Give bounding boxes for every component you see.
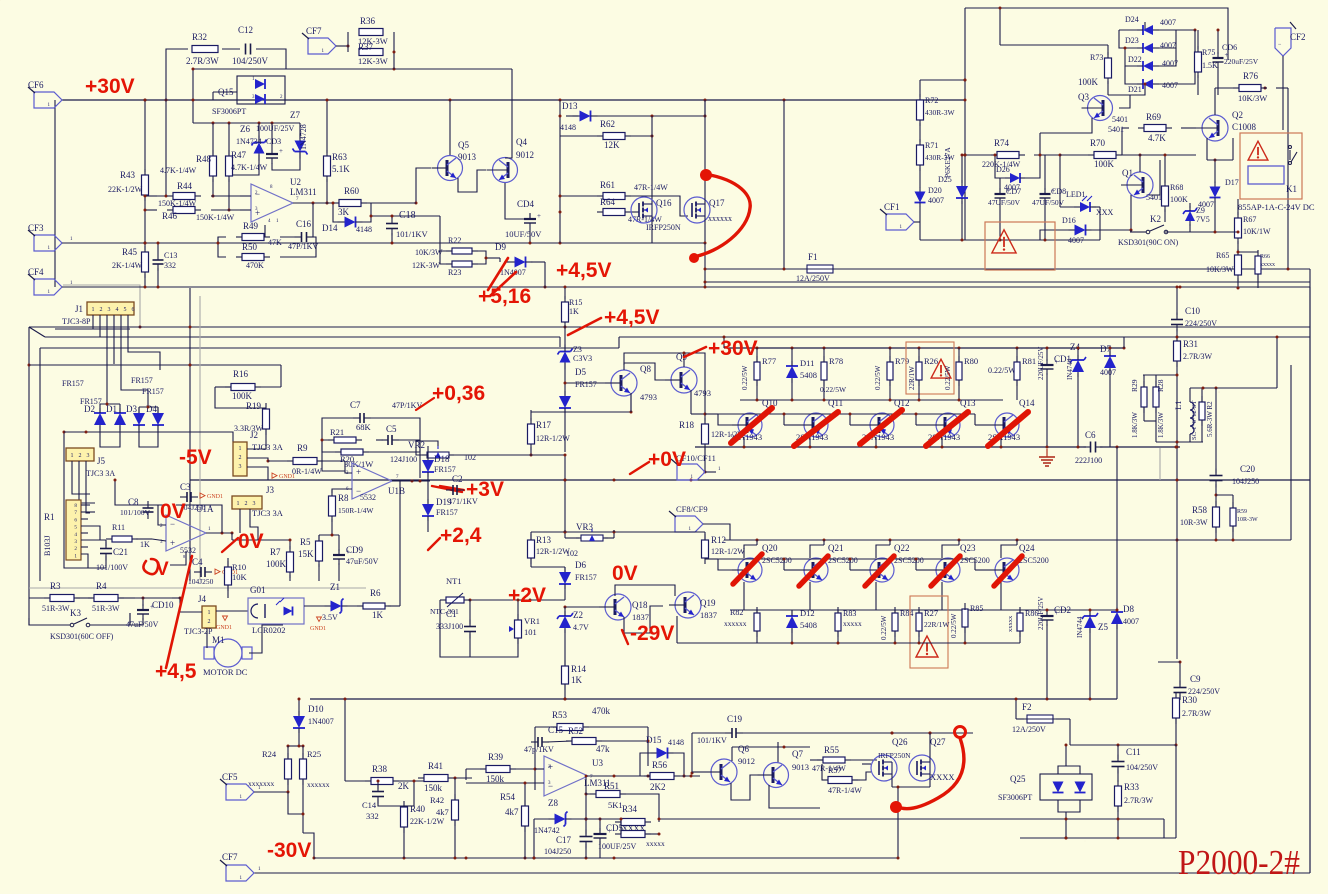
svg-text:R30: R30 bbox=[1182, 695, 1198, 705]
svg-text:5408: 5408 bbox=[800, 620, 817, 630]
transistor Q13 bbox=[928, 398, 976, 442]
svg-text:4007: 4007 bbox=[1068, 236, 1084, 245]
capacitor C11 bbox=[1112, 745, 1159, 782]
svg-text:104J250: 104J250 bbox=[1232, 477, 1259, 486]
svg-text:R69: R69 bbox=[1146, 112, 1162, 122]
red +0,36 bbox=[416, 382, 485, 410]
resistor R11 bbox=[106, 523, 152, 549]
svg-text:C4: C4 bbox=[192, 557, 203, 567]
svg-text:R57: R57 bbox=[828, 766, 841, 775]
red D18 D19 marks bbox=[440, 486, 464, 490]
svg-text:R62: R62 bbox=[600, 119, 615, 129]
wire NPN col rail bbox=[744, 540, 1017, 558]
svg-text:R1: R1 bbox=[44, 512, 55, 522]
resistor R38 bbox=[345, 764, 424, 791]
svg-text:4007: 4007 bbox=[928, 196, 944, 205]
svg-text:F1: F1 bbox=[808, 252, 818, 262]
svg-text:+30V: +30V bbox=[85, 75, 135, 98]
resistor R64 bbox=[597, 197, 662, 224]
svg-text:R72: R72 bbox=[925, 96, 938, 105]
svg-text:R67: R67 bbox=[1243, 215, 1256, 224]
red 0V d bbox=[612, 562, 638, 585]
connector J1 bbox=[62, 302, 135, 326]
wire K2 right bbox=[1166, 222, 1240, 234]
svg-text:D13: D13 bbox=[562, 101, 578, 111]
resistor R7 bbox=[258, 540, 294, 581]
svg-text:Q14: Q14 bbox=[1019, 398, 1035, 408]
svg-text:FR157: FR157 bbox=[80, 397, 102, 406]
wire mid rail y480 bbox=[189, 288, 1311, 581]
red slashes Q20-Q24 bbox=[733, 554, 1022, 586]
svg-text:xxxxx: xxxxx bbox=[646, 839, 665, 848]
svg-text:+2V: +2V bbox=[508, 584, 546, 607]
svg-text:D1: D1 bbox=[106, 404, 117, 414]
wire x565 mid link bbox=[564, 454, 567, 534]
svg-text:1.8K/3W: 1.8K/3W bbox=[1131, 412, 1139, 438]
svg-text:Q17: Q17 bbox=[709, 198, 725, 208]
capacitor C20 bbox=[1210, 388, 1260, 495]
red +4,5V b bbox=[568, 306, 659, 335]
svg-text:8: 8 bbox=[74, 503, 77, 509]
capacitor C7 bbox=[350, 400, 422, 423]
svg-text:R34: R34 bbox=[622, 804, 638, 814]
wire R17 net bbox=[454, 393, 633, 457]
svg-text:R73: R73 bbox=[1090, 53, 1103, 62]
resistor R78 bbox=[820, 348, 847, 400]
svg-text:L1: L1 bbox=[1173, 401, 1183, 410]
resistor R51 bbox=[590, 781, 626, 810]
svg-text:2.7R/3W: 2.7R/3W bbox=[1183, 352, 1213, 361]
svg-text:R84: R84 bbox=[900, 609, 913, 618]
svg-text:+2,4: +2,4 bbox=[440, 524, 482, 547]
svg-text:C19: C19 bbox=[727, 714, 743, 724]
svg-text:R41: R41 bbox=[428, 761, 443, 771]
wire Q26Q27 net bbox=[860, 764, 871, 780]
capacitor C8 bbox=[120, 497, 154, 519]
svg-text:D18: D18 bbox=[434, 454, 450, 464]
resistor R70 bbox=[1088, 138, 1122, 169]
svg-text:V: V bbox=[156, 559, 169, 580]
resistor R21 bbox=[328, 422, 372, 443]
svg-text:TJC3 3A: TJC3 3A bbox=[252, 508, 284, 518]
diode D4 bbox=[146, 404, 164, 430]
switch K2 bbox=[1118, 214, 1179, 247]
svg-text:10R-3W: 10R-3W bbox=[1237, 517, 1258, 523]
svg-text:U3: U3 bbox=[592, 758, 603, 768]
svg-text:12R-1/2W: 12R-1/2W bbox=[711, 547, 745, 556]
svg-text:5: 5 bbox=[124, 307, 127, 313]
svg-text:C18: C18 bbox=[399, 210, 416, 221]
diode D3 bbox=[126, 404, 145, 430]
svg-text:R68: R68 bbox=[1170, 183, 1183, 192]
transistor Q12 bbox=[862, 398, 910, 442]
svg-text:NT1: NT1 bbox=[446, 576, 462, 586]
capacitor C16 bbox=[288, 219, 318, 251]
red +30V mid bbox=[684, 337, 758, 360]
wire Z6 net bbox=[193, 122, 300, 176]
wire NPN bases bbox=[705, 558, 989, 571]
svg-text:CD10: CD10 bbox=[152, 600, 174, 610]
svg-text:51R-3W: 51R-3W bbox=[92, 604, 120, 613]
svg-text:12A/250V: 12A/250V bbox=[1012, 725, 1046, 734]
wire U3 below bbox=[585, 793, 588, 821]
svg-text:6: 6 bbox=[74, 517, 77, 523]
wire PNP row mid rail bbox=[740, 399, 1003, 402]
svg-text:xxxxxx: xxxxxx bbox=[724, 619, 747, 628]
diode D21 bbox=[1128, 79, 1178, 94]
wire bus y540 frag bbox=[232, 539, 292, 542]
resistor R31 bbox=[1174, 335, 1213, 367]
svg-text:P2000-2#: P2000-2# bbox=[1178, 843, 1300, 882]
resistor R52 bbox=[547, 726, 650, 766]
svg-text:R46: R46 bbox=[162, 211, 178, 221]
svg-text:4.7K-1/4W: 4.7K-1/4W bbox=[231, 163, 268, 172]
resistor R63 bbox=[324, 99, 351, 205]
svg-text:R51: R51 bbox=[604, 781, 619, 791]
zener Z6 bbox=[236, 124, 267, 161]
label GND1 a bbox=[200, 493, 223, 500]
svg-text:R80: R80 bbox=[964, 356, 978, 366]
svg-text:2SC5200: 2SC5200 bbox=[828, 556, 858, 565]
optocoupler G01 bbox=[248, 585, 304, 635]
svg-text:D10: D10 bbox=[308, 704, 324, 714]
thermistor NT1 bbox=[430, 576, 470, 616]
svg-text:R55: R55 bbox=[824, 745, 840, 755]
svg-text:R76: R76 bbox=[1243, 71, 1259, 81]
resistor R68 bbox=[1162, 154, 1189, 223]
svg-text:Q24: Q24 bbox=[1019, 543, 1035, 553]
resistor R65 bbox=[1206, 249, 1242, 290]
svg-text:CD8: CD8 bbox=[1051, 187, 1066, 196]
resistor R66 bbox=[1237, 250, 1276, 288]
svg-text:101: 101 bbox=[524, 627, 537, 637]
resistor R28 bbox=[1153, 375, 1165, 438]
wire R24 bottom bbox=[288, 792, 305, 816]
svg-text:100K: 100K bbox=[266, 559, 287, 569]
wire y432 line bbox=[64, 431, 233, 443]
svg-text:R10: R10 bbox=[232, 562, 246, 572]
wire U1A out to J3 bbox=[231, 533, 233, 540]
svg-text:471/1KV: 471/1KV bbox=[448, 497, 478, 506]
wire Q6Q7 nets bbox=[692, 746, 810, 801]
svg-text:R70: R70 bbox=[1090, 138, 1106, 148]
svg-text:5401: 5401 bbox=[1108, 125, 1124, 134]
connector CF1 bbox=[880, 202, 920, 230]
svg-text:R28: R28 bbox=[1156, 379, 1165, 392]
svg-text:R63: R63 bbox=[332, 152, 348, 162]
resistor R56 bbox=[644, 760, 680, 792]
red arc Q27 bbox=[890, 727, 966, 814]
svg-text:C5: C5 bbox=[386, 424, 397, 434]
wire PNP emitters collectors bbox=[744, 437, 1001, 447]
svg-text:2SC5200: 2SC5200 bbox=[894, 556, 924, 565]
transistor Q3 bbox=[1078, 92, 1128, 124]
diode D13 bbox=[560, 101, 598, 132]
red arc Q17 bbox=[689, 169, 750, 263]
transistor Q22 bbox=[864, 543, 924, 582]
diode D19 bbox=[422, 480, 458, 532]
connector J5 bbox=[66, 448, 115, 478]
capacitor C6 bbox=[1075, 430, 1103, 465]
svg-text:GND1: GND1 bbox=[207, 494, 223, 500]
resistor R15 bbox=[562, 296, 583, 328]
red 0V c bbox=[143, 559, 169, 580]
svg-text:1N4734: 1N4734 bbox=[236, 137, 262, 146]
svg-text:9013: 9013 bbox=[792, 762, 809, 772]
wire U3 nets bbox=[466, 769, 668, 783]
diode D5 bbox=[559, 367, 597, 452]
label 30K1W bbox=[344, 459, 373, 469]
svg-text:7: 7 bbox=[74, 510, 77, 516]
svg-text:Q25: Q25 bbox=[1010, 774, 1026, 784]
label GND1 d bbox=[310, 617, 326, 632]
wire +30V rail bbox=[62, 99, 965, 102]
wire G01 nets bbox=[304, 605, 330, 607]
svg-text:R39: R39 bbox=[488, 752, 504, 762]
wire R16 net bbox=[189, 364, 192, 367]
transistor Q19 bbox=[669, 592, 717, 620]
resistor R44 bbox=[158, 181, 201, 208]
svg-text:1: 1 bbox=[237, 501, 240, 507]
svg-text:3: 3 bbox=[108, 307, 111, 313]
svg-text:4007: 4007 bbox=[1160, 18, 1176, 27]
svg-text:D26: D26 bbox=[996, 165, 1010, 174]
svg-text:+4,5: +4,5 bbox=[155, 660, 197, 683]
connector CF2 bbox=[1275, 22, 1306, 130]
svg-text:1837: 1837 bbox=[700, 610, 717, 620]
svg-text:R11: R11 bbox=[112, 523, 125, 532]
svg-text:1.8K/3W: 1.8K/3W bbox=[1157, 412, 1165, 438]
op-amp U2 bbox=[251, 177, 317, 224]
svg-text:4793: 4793 bbox=[640, 392, 657, 402]
svg-text:5: 5 bbox=[74, 525, 77, 531]
svg-text:R3: R3 bbox=[50, 581, 61, 591]
svg-text:220UF/25V: 220UF/25V bbox=[1037, 347, 1045, 380]
resistor R48 bbox=[160, 150, 217, 182]
capacitor C21 bbox=[96, 540, 128, 572]
svg-text:XXXX: XXXX bbox=[930, 772, 955, 782]
wire PNP bases bbox=[705, 413, 989, 426]
svg-text:F2: F2 bbox=[1022, 702, 1032, 712]
svg-text:R65: R65 bbox=[1216, 251, 1229, 260]
svg-text:430R-3W: 430R-3W bbox=[925, 108, 956, 117]
capacitor CD2 bbox=[1037, 597, 1071, 699]
resistor R67 bbox=[1235, 199, 1272, 252]
svg-text:150R-1/4W: 150R-1/4W bbox=[338, 506, 374, 515]
svg-text:2: 2 bbox=[74, 546, 77, 552]
resistor R58 bbox=[1180, 494, 1220, 541]
wire J4 pins bbox=[172, 597, 248, 632]
wire R45C13 bbox=[144, 242, 160, 289]
svg-text:470k: 470k bbox=[592, 706, 611, 716]
svg-text:12A/250V: 12A/250V bbox=[796, 274, 830, 283]
svg-text:D4: D4 bbox=[146, 404, 157, 414]
label GND1 c bbox=[272, 473, 295, 480]
wire Q3 top net bbox=[999, 7, 1146, 46]
svg-text:D14: D14 bbox=[322, 223, 338, 233]
svg-text:10K/3W: 10K/3W bbox=[1206, 265, 1234, 274]
svg-text:0.22/5W: 0.22/5W bbox=[950, 613, 958, 638]
wire Q4Q5 nets bbox=[371, 69, 524, 219]
wire gray right bbox=[1159, 448, 1161, 480]
resistor R49 bbox=[236, 221, 282, 247]
wire D10 net bbox=[287, 745, 305, 748]
svg-text:+: + bbox=[356, 467, 361, 477]
svg-text:470K: 470K bbox=[246, 261, 264, 270]
svg-text:3: 3 bbox=[253, 501, 256, 507]
svg-text:TJC3-2P: TJC3-2P bbox=[184, 627, 213, 636]
red +4,5 bottom bbox=[155, 556, 197, 683]
transistor Q17 MOSFET bbox=[684, 197, 732, 223]
svg-text:10K: 10K bbox=[232, 572, 248, 582]
svg-text:G01: G01 bbox=[250, 585, 266, 595]
wire bottom bus y858 bbox=[314, 857, 898, 860]
transistor Q6 bbox=[705, 744, 755, 785]
wire VR2R18 bbox=[691, 390, 707, 416]
svg-text:GND1: GND1 bbox=[216, 625, 232, 631]
svg-text:VR3: VR3 bbox=[576, 522, 594, 532]
connector J4 bbox=[184, 594, 216, 636]
transistor Q27 MOSFET bbox=[909, 737, 955, 782]
transistor Q8 bbox=[605, 364, 657, 402]
svg-text:4007: 4007 bbox=[1100, 368, 1116, 377]
resistor R2 bbox=[1199, 388, 1214, 442]
resistor R46 bbox=[162, 207, 235, 223]
resistor R69 bbox=[1138, 112, 1172, 143]
svg-text:R61: R61 bbox=[600, 180, 615, 190]
resistor R60 bbox=[333, 186, 367, 217]
wire J5 pins bbox=[72, 461, 95, 513]
svg-text:1N4007: 1N4007 bbox=[308, 717, 334, 726]
capacitor CD3 bbox=[256, 124, 294, 164]
svg-text:R43: R43 bbox=[120, 170, 136, 180]
resistor R29 bbox=[1130, 379, 1147, 438]
diode D9 bbox=[495, 242, 533, 277]
svg-text:R66: R66 bbox=[1260, 254, 1270, 260]
svg-text:+30V: +30V bbox=[708, 337, 758, 360]
wire Q26 top bbox=[891, 732, 932, 735]
svg-text:FR157: FR157 bbox=[575, 380, 597, 389]
wire right edge bbox=[1309, 287, 1311, 873]
diode D2 bbox=[84, 404, 106, 430]
resistor R42 bbox=[430, 778, 459, 860]
svg-text:Z5: Z5 bbox=[1098, 622, 1108, 632]
svg-text:0R-1/4W: 0R-1/4W bbox=[292, 467, 322, 476]
svg-text:C20: C20 bbox=[1240, 464, 1256, 474]
svg-text:R79: R79 bbox=[895, 356, 909, 366]
svg-text:R19: R19 bbox=[246, 401, 262, 411]
svg-text:Q16: Q16 bbox=[656, 198, 672, 208]
svg-text:2.7R/3W: 2.7R/3W bbox=[1124, 796, 1154, 805]
pot VR3 bbox=[566, 522, 608, 558]
transistor Q11 bbox=[796, 398, 843, 442]
red +30V top bbox=[85, 75, 135, 98]
svg-text:100K: 100K bbox=[1094, 159, 1115, 169]
wire left col x55 bbox=[54, 100, 56, 287]
svg-text:R58: R58 bbox=[1192, 505, 1208, 515]
svg-text:2.7R/3W: 2.7R/3W bbox=[1182, 709, 1212, 718]
wire R55 right bbox=[0, 0, 1, 1]
svg-text:3.3R/3W: 3.3R/3W bbox=[234, 424, 264, 433]
red -29V bbox=[622, 622, 674, 645]
svg-text:+0V: +0V bbox=[648, 448, 686, 471]
svg-text:Q3: Q3 bbox=[1078, 92, 1089, 102]
svg-text:C12: C12 bbox=[238, 25, 253, 35]
svg-text:224/250V: 224/250V bbox=[1185, 319, 1217, 328]
svg-text:GND1: GND1 bbox=[310, 626, 326, 632]
wire output row top rail bbox=[724, 347, 1126, 350]
svg-text:C1008: C1008 bbox=[1232, 122, 1257, 132]
svg-text:MOTOR DC: MOTOR DC bbox=[203, 667, 248, 677]
svg-text:D11: D11 bbox=[800, 358, 814, 368]
svg-text:SC-1*6*12-ST: SC-1*6*12-ST bbox=[1191, 401, 1198, 440]
wire D2x net bbox=[1108, 29, 1197, 96]
svg-text:CF3: CF3 bbox=[28, 223, 44, 233]
svg-text:U2: U2 bbox=[290, 177, 301, 187]
capacitor CD4 bbox=[505, 199, 542, 239]
svg-text:2: 2 bbox=[100, 307, 103, 313]
svg-text:855AP-1A-C-24V DC: 855AP-1A-C-24V DC bbox=[1238, 202, 1315, 212]
resistor R36 bbox=[358, 16, 388, 46]
svg-text:R22: R22 bbox=[448, 236, 461, 245]
wire R22 net bbox=[440, 251, 500, 264]
wire CF7-R36 bbox=[336, 32, 396, 69]
wire R44 net bbox=[144, 195, 241, 212]
wire Q16Q17 net bbox=[652, 100, 707, 289]
resistor R40 bbox=[401, 801, 445, 858]
wire R29 net bbox=[1143, 365, 1203, 659]
svg-text:+: + bbox=[279, 147, 283, 155]
resistor R72 bbox=[917, 79, 967, 127]
svg-text:R48: R48 bbox=[196, 154, 212, 164]
svg-text:FR157: FR157 bbox=[436, 508, 458, 517]
svg-text:TJC3 3A: TJC3 3A bbox=[252, 442, 284, 452]
capacitor C10 bbox=[1171, 286, 1217, 337]
svg-text:CF2: CF2 bbox=[1290, 32, 1306, 42]
resistor R5 bbox=[298, 535, 323, 581]
op-amp U1B bbox=[346, 463, 405, 502]
svg-text:J1: J1 bbox=[75, 304, 83, 314]
svg-text:D9: D9 bbox=[495, 242, 506, 252]
wire R49 net bbox=[217, 237, 317, 257]
svg-text:12K-3W: 12K-3W bbox=[412, 261, 440, 270]
wire y699 rail bbox=[310, 698, 1117, 701]
svg-text:R81: R81 bbox=[1022, 356, 1036, 366]
wire VR2 net bbox=[416, 441, 530, 455]
svg-text:CD2: CD2 bbox=[1054, 605, 1071, 615]
svg-text:R53: R53 bbox=[552, 710, 568, 720]
svg-text:4: 4 bbox=[74, 532, 77, 538]
svg-text:7V5: 7V5 bbox=[1196, 215, 1210, 224]
capacitor C12 bbox=[232, 25, 269, 66]
svg-text:104J250: 104J250 bbox=[544, 847, 571, 856]
transistor Q10 bbox=[730, 398, 778, 442]
svg-text:K2: K2 bbox=[1150, 214, 1161, 224]
svg-text:D16: D16 bbox=[1062, 216, 1076, 225]
capacitor CD8 bbox=[1032, 155, 1066, 240]
capacitor CD1 bbox=[1037, 347, 1071, 448]
wire F1 net bbox=[705, 100, 1310, 287]
zener Z2 bbox=[557, 607, 589, 665]
svg-text:9013: 9013 bbox=[458, 152, 477, 162]
svg-text:+: + bbox=[537, 212, 541, 220]
wire +2V rail bbox=[440, 599, 565, 602]
svg-text:4.7K: 4.7K bbox=[1148, 133, 1166, 143]
connector CF4 bbox=[28, 267, 62, 295]
svg-text:Q4: Q4 bbox=[516, 137, 527, 147]
svg-text:C15: C15 bbox=[548, 725, 564, 735]
wire CF3 rail bbox=[62, 237, 415, 243]
